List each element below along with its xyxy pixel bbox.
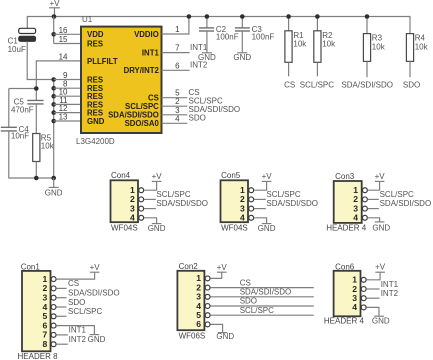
svg-text:GND: GND <box>88 335 106 344</box>
Con2 pin3 wire <box>210 296 313 298</box>
junction C2/rail <box>205 14 210 19</box>
svg-text:GND: GND <box>87 117 105 126</box>
Con1 pin1 wire to +V <box>56 272 94 279</box>
svg-text:SDA/SDI/SDO: SDA/SDI/SDO <box>68 289 120 298</box>
svg-text:GND: GND <box>372 224 390 233</box>
pin 3 wire <box>162 114 188 116</box>
svg-text:+V: +V <box>375 172 386 181</box>
junction R1/rail <box>286 14 291 19</box>
svg-text:13: 13 <box>59 113 68 122</box>
ground Con4 <box>148 224 166 233</box>
svg-text:SCL/SPC: SCL/SPC <box>380 190 414 199</box>
svg-text:100nF: 100nF <box>216 33 239 42</box>
Con2 pin4 wire <box>210 305 313 307</box>
wire rail down to pin16/15 <box>53 17 55 44</box>
U1 right pin labels <box>108 30 159 128</box>
svg-text:7: 7 <box>175 44 180 53</box>
+V power symbol top <box>49 0 60 17</box>
junction rail/+V stub <box>52 14 57 19</box>
Con4 pin2 wire <box>144 198 156 200</box>
svg-text:1: 1 <box>175 25 180 34</box>
wire C4 bottom <box>9 131 54 178</box>
svg-text:GND: GND <box>216 332 234 341</box>
Con3 pin2 wire <box>368 198 379 200</box>
svg-text:4: 4 <box>130 213 135 223</box>
wire C4 vertical top <box>8 89 10 128</box>
svg-text:Con2: Con2 <box>179 262 199 271</box>
svg-text:10nF: 10nF <box>11 132 29 141</box>
svg-text:HEADER 4: HEADER 4 <box>324 316 365 325</box>
junction pin1/rail <box>187 14 192 19</box>
junction pin8 <box>51 86 56 91</box>
connector Con4 <box>111 171 139 232</box>
svg-text:4: 4 <box>175 114 180 123</box>
U1 right pin numbers <box>175 25 180 123</box>
svg-text:HEADER 4: HEADER 4 <box>326 224 367 233</box>
junction GND bus bottom <box>51 176 56 181</box>
svg-text:INT2: INT2 <box>69 335 87 344</box>
Con2 pin6 wire to GND <box>210 324 222 332</box>
ground (bottom left) <box>45 178 63 197</box>
Con2 pin2 wire <box>210 287 313 289</box>
resistor R5 <box>33 133 55 161</box>
svg-text:RES: RES <box>87 39 103 48</box>
svg-text:8: 8 <box>43 339 48 349</box>
capacitor C3 <box>235 17 274 53</box>
Con3 pin bubbles <box>362 188 367 221</box>
pin 7 wire <box>162 52 190 54</box>
pin 9 wire <box>54 79 81 81</box>
ground Con3 <box>372 222 390 233</box>
svg-text:SDA/SDI/SDO: SDA/SDI/SDO <box>266 199 318 208</box>
resistor R3 <box>363 17 385 78</box>
wire C5 to R5 <box>35 104 37 134</box>
svg-text:SCL/SPC: SCL/SPC <box>156 190 190 199</box>
ground Con1 <box>88 335 106 344</box>
svg-text:+V: +V <box>262 172 273 181</box>
pin 12 wire <box>54 112 81 114</box>
pin 2 wire <box>162 105 188 107</box>
svg-text:GND: GND <box>45 188 63 197</box>
op IC U1 L3G4200D body <box>76 15 162 146</box>
+V symbol Con2 <box>217 263 228 272</box>
svg-text:C1: C1 <box>8 37 19 46</box>
pin 4 wire <box>162 122 188 124</box>
ground Con5 <box>258 224 276 233</box>
svg-text:100nF: 100nF <box>252 33 275 42</box>
svg-text:SCL/SPC: SCL/SPC <box>266 190 300 199</box>
svg-text:PLLFILT: PLLFILT <box>87 57 118 66</box>
connector Con3 <box>326 172 367 233</box>
svg-text:VDD: VDD <box>87 30 104 39</box>
pin 16 wire <box>54 33 81 35</box>
Con4 pin3 wire <box>144 208 156 210</box>
Con6 pin bubbles <box>361 277 366 310</box>
U1 left pin numbers <box>59 26 68 122</box>
svg-text:INT2: INT2 <box>381 289 399 298</box>
svg-text:Con5: Con5 <box>221 171 241 180</box>
+V rail (top) <box>27 17 410 34</box>
svg-text:CS: CS <box>68 279 79 288</box>
pin 6 wire <box>162 69 190 71</box>
svg-text:14: 14 <box>59 52 68 61</box>
svg-text:SCL/SPC: SCL/SPC <box>240 306 274 315</box>
+V symbol Con6 <box>375 263 386 273</box>
svg-text:INT2: INT2 <box>190 61 208 70</box>
connector Con1 <box>18 263 59 360</box>
Con1 pin8 wire <box>56 343 68 345</box>
svg-text:SDA/SDI/SDO: SDA/SDI/SDO <box>156 199 208 208</box>
svg-text:+V: +V <box>152 172 163 181</box>
svg-text:SDA/SDI/SDO: SDA/SDI/SDO <box>380 199 432 208</box>
connector Con6 <box>324 262 365 325</box>
junction pin10 <box>51 94 56 99</box>
+V symbol Con4 <box>152 172 163 181</box>
wire R5 bottom <box>35 162 37 179</box>
svg-text:SDA/SDI/SDO: SDA/SDI/SDO <box>240 288 292 297</box>
svg-text:6: 6 <box>175 61 180 70</box>
junction pin9 <box>51 77 56 82</box>
resistor R1 <box>285 17 307 77</box>
ground C3 <box>233 53 251 62</box>
Con3 pin4 wire to GND <box>368 218 380 222</box>
Con5 pin1 wire to +V <box>254 181 267 190</box>
pin 8 wire <box>54 87 81 89</box>
connector Con2 <box>177 262 205 340</box>
svg-text:CS: CS <box>240 278 251 287</box>
Con1 pin7 wire <box>56 334 68 336</box>
ground C2 <box>198 53 216 62</box>
pin 14 wire (PLLFILT) <box>36 61 81 100</box>
svg-text:10k: 10k <box>322 39 336 48</box>
Con6 pin4 wire to GND <box>366 307 379 316</box>
svg-text:HEADER 8: HEADER 8 <box>18 352 59 360</box>
svg-text:CS: CS <box>284 80 295 89</box>
svg-text:GND: GND <box>148 224 166 233</box>
svg-text:SDO: SDO <box>240 297 257 306</box>
svg-text:SCL/SPC: SCL/SPC <box>68 307 102 316</box>
ground Con6 <box>372 316 390 325</box>
Con5 pin3 wire <box>254 208 266 210</box>
svg-text:+V: +V <box>90 263 101 272</box>
pin 1 wire (VDDIO to rail) <box>162 17 189 35</box>
Con3 pin1 wire to +V <box>368 181 380 190</box>
svg-text:INT1: INT1 <box>190 43 208 52</box>
pin 13 wire <box>54 120 81 122</box>
wire C4 branch top <box>9 88 37 90</box>
Con5 pin4 wire to GND <box>254 218 267 224</box>
Con5 pin bubbles <box>249 188 254 221</box>
svg-text:10k: 10k <box>293 39 307 48</box>
resistor R2 <box>314 17 336 77</box>
svg-text:4: 4 <box>352 302 357 312</box>
svg-text:SDA/SDI/SDO: SDA/SDI/SDO <box>341 80 393 89</box>
svg-text:4: 4 <box>240 213 245 223</box>
Con3 pin3 wire <box>368 208 379 210</box>
Con4 pin4 wire to GND <box>144 218 157 224</box>
svg-text:10uF: 10uF <box>8 45 26 54</box>
svg-text:+V: +V <box>217 263 228 272</box>
svg-text:10k: 10k <box>415 42 429 51</box>
svg-text:RES: RES <box>87 75 103 84</box>
Con6 pin2 wire <box>366 288 379 290</box>
Con2 pin bubbles <box>205 276 210 327</box>
wire C1 bottom to RES bus <box>27 41 54 79</box>
Con1 pin bubbles <box>51 277 56 347</box>
svg-text:10k: 10k <box>41 142 55 151</box>
svg-text:Con3: Con3 <box>335 172 355 181</box>
svg-text:INT1: INT1 <box>381 280 399 289</box>
svg-text:SDO: SDO <box>189 114 206 123</box>
svg-text:INT1: INT1 <box>69 325 87 334</box>
Con1 pin5 wire <box>56 315 66 317</box>
junction R3/rail <box>365 14 370 19</box>
RES/GND bus vertical <box>53 80 55 179</box>
svg-text:INT1: INT1 <box>142 49 160 58</box>
connector Con5 <box>221 171 249 232</box>
Con6 pin3 wire <box>366 297 379 299</box>
junction C3/rail <box>240 14 245 19</box>
svg-text:GND: GND <box>258 224 276 233</box>
Con1 pin4 wire <box>56 306 66 308</box>
ground Con2 <box>216 332 234 341</box>
svg-text:GND: GND <box>198 53 216 62</box>
capacitor C1 <box>8 28 36 54</box>
Con1 pin2 wire <box>56 287 66 289</box>
svg-text:16: 16 <box>59 26 68 35</box>
svg-text:6: 6 <box>196 319 201 329</box>
svg-text:SDO: SDO <box>403 80 420 89</box>
Con6 pin1 wire to +V <box>366 272 380 280</box>
svg-text:VDDIO: VDDIO <box>134 30 159 39</box>
capacitor C2 <box>199 17 239 53</box>
pin 10 wire <box>54 95 81 97</box>
svg-text:WF04S: WF04S <box>221 224 248 233</box>
Con2 pin5 wire <box>210 314 313 316</box>
svg-text:4: 4 <box>353 213 358 223</box>
svg-text:9: 9 <box>63 71 68 80</box>
junction pin13 <box>51 119 56 124</box>
Con4 pin1 wire to +V <box>144 181 157 190</box>
junction R5/C4 bottom <box>34 176 39 181</box>
resistor R4 <box>406 34 428 78</box>
svg-text:WF04S: WF04S <box>111 224 138 233</box>
Con5 pin2 wire <box>254 198 266 200</box>
+V symbol Con5 <box>262 172 273 181</box>
capacitor C5 <box>11 98 44 115</box>
svg-text:DRY/INT2: DRY/INT2 <box>124 66 160 75</box>
svg-text:SDO/SA0: SDO/SA0 <box>125 119 160 128</box>
capacitor C4 <box>1 125 29 141</box>
Con1 pin3 wire <box>56 297 66 299</box>
svg-text:SCL/SPC: SCL/SPC <box>300 80 334 89</box>
+V symbol Con3 <box>375 172 386 181</box>
pin 11 wire <box>54 103 81 105</box>
junction pin12 <box>51 110 56 115</box>
pin 15 wire <box>54 43 81 45</box>
svg-text:GND: GND <box>233 53 251 62</box>
junction pin16 <box>51 32 56 37</box>
svg-text:SDO: SDO <box>68 298 85 307</box>
pin 5 wire <box>162 97 188 99</box>
svg-text:U1: U1 <box>82 15 93 24</box>
U1 left pin labels <box>87 30 118 126</box>
svg-text:Con4: Con4 <box>111 171 131 180</box>
svg-text:15: 15 <box>59 35 68 44</box>
Con2 pin1 wire to +V <box>210 272 221 278</box>
svg-text:GND: GND <box>372 316 390 325</box>
junction R2/rail <box>315 14 320 19</box>
Con1 pin6 wire to GND <box>56 326 94 335</box>
svg-text:+V: +V <box>49 0 60 8</box>
+V symbol Con1 <box>90 263 101 272</box>
svg-text:L3G4200D: L3G4200D <box>76 137 115 146</box>
Con4 pin bubbles <box>139 188 144 221</box>
svg-text:+V: +V <box>375 263 386 272</box>
svg-text:10k: 10k <box>372 42 386 51</box>
svg-text:470nF: 470nF <box>11 106 34 115</box>
junction PLLFILT/C4 <box>34 86 39 91</box>
junction pin11 <box>51 102 56 107</box>
svg-text:WF06S: WF06S <box>179 331 206 340</box>
